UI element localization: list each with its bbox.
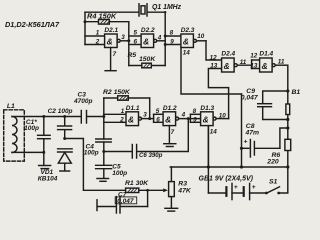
resistor R2 [103,89,150,119]
svg-text:8: 8 [193,108,197,115]
resistor R5 [128,52,166,68]
inductor L1 dashed shield box [4,110,25,161]
wire top rail to crystal [85,11,139,13]
wire crystal to D2.2 output node [148,12,166,65]
svg-text:2: 2 [119,116,124,123]
svg-text:D2.2: D2.2 [141,27,155,34]
svg-text:47m: 47m [245,130,260,137]
svg-text:7: 7 [113,51,117,58]
gate D2.4 [210,51,252,73]
svg-text:13: 13 [210,63,218,70]
svg-text:100p: 100p [24,125,39,132]
ground of L1/C1 [39,152,51,168]
svg-text:9: 9 [170,39,174,46]
capacitor C8 electrolytic [242,123,288,157]
wire node X down to C4 [103,122,105,139]
battery GB1 [199,125,266,200]
svg-text:1: 1 [121,108,125,115]
ground of R3 [165,208,178,211]
svg-text:R1 30K: R1 30K [125,180,149,187]
svg-text:D1.2: D1.2 [163,105,177,112]
svg-text:10: 10 [197,33,205,40]
svg-text:100p: 100p [84,150,99,157]
capacitor C2 [48,108,73,139]
svg-text:&: & [143,37,149,47]
gate D2.3 [165,27,206,48]
svg-text:47K: 47K [177,187,192,194]
svg-text:L1: L1 [7,103,15,110]
svg-text:3: 3 [121,34,125,41]
ground pin 7 of D1.2 [164,126,176,147]
svg-text:5: 5 [134,30,138,37]
svg-text:+: + [252,184,256,191]
switch S1 [265,167,288,194]
quartz crystal Q1 [139,4,182,16]
svg-text:R5: R5 [128,52,137,59]
svg-text:&: & [203,115,209,125]
svg-text:&: & [165,115,171,125]
wire D2.4 pin 13 from D1.3 output link [208,69,228,119]
svg-text:4700p: 4700p [73,98,92,105]
svg-text:4: 4 [157,35,162,42]
svg-text:100p: 100p [112,170,127,177]
svg-text:&: & [224,61,230,71]
svg-text:D1.1: D1.1 [126,105,140,112]
wire R4 right vertical [128,22,130,66]
svg-text:D2.4: D2.4 [221,51,235,58]
capacitor C7 [97,190,148,213]
svg-text:0,047: 0,047 [241,94,259,101]
svg-text:6: 6 [134,39,138,46]
svg-text:4: 4 [181,112,186,119]
wire rail C3 to node X [87,116,104,118]
gate D1.2 [154,105,201,126]
capacitor C1 [24,117,50,153]
wire C8 left vertical (supply) [241,94,243,167]
svg-text:GB1 9V (2X4,5V): GB1 9V (2X4,5V) [199,176,254,183]
svg-text:9: 9 [193,117,197,124]
ground pin 7 of D2.1 [105,48,117,71]
svg-text:&: & [183,37,189,47]
resistor R6 [266,139,290,165]
potentiometer R3 [169,167,192,208]
svg-text:2: 2 [95,39,100,46]
svg-text:&: & [107,37,113,47]
svg-text:D1.4: D1.4 [259,51,273,58]
svg-text:150K: 150K [139,56,156,63]
buzzer B1 [286,89,301,115]
varicap diode VD1 [38,149,72,183]
svg-text:C2 100p: C2 100p [48,108,73,115]
wire D1.4 output down right side [287,65,289,167]
capacitor C6 [104,119,189,160]
svg-text:R2 150K: R2 150K [103,89,131,96]
svg-text:14: 14 [210,129,218,136]
ground of C5 [97,179,109,182]
svg-text:1: 1 [96,30,100,37]
svg-text:12: 12 [250,53,258,60]
gate D1.1 [104,105,154,126]
wiper arrow into R3 [163,188,168,192]
svg-text:11: 11 [278,59,285,66]
pin 14 of D1.3 supply wire [208,126,217,167]
svg-text:10: 10 [219,113,227,120]
gate D1.4 [250,51,288,73]
pin 14 of D2.3 supply wire [181,48,242,95]
svg-text:8: 8 [170,30,174,37]
svg-text:0,047: 0,047 [117,198,134,205]
wire left vertical D2.1 input node [84,12,86,44]
gate D2.2 [129,27,165,48]
svg-text:R4 150K: R4 150K [87,12,117,21]
svg-text:КВ104: КВ104 [38,176,58,183]
gate D1.3 [190,105,228,126]
svg-text:D1.3: D1.3 [200,105,214,112]
svg-text:Q1 1MHz: Q1 1MHz [152,4,182,11]
wire tank top rail [44,116,81,118]
svg-text:D2.1: D2.1 [104,27,118,34]
svg-text:+: + [234,184,238,191]
svg-text:11: 11 [240,59,247,66]
svg-text:&: & [262,61,268,71]
inductor L1 coil [12,117,44,153]
resistor R4 [85,12,129,25]
svg-text:5: 5 [156,108,160,115]
svg-text:B1: B1 [292,89,301,96]
svg-text:220: 220 [266,159,279,166]
svg-text:C6 390p: C6 390p [139,152,163,159]
svg-text:13: 13 [250,63,258,70]
capacitor C3 [73,92,92,124]
svg-text:+: + [244,139,248,146]
capacitor C4 [84,139,111,165]
wire VD1 node to bias chain [65,139,126,191]
wire D2.3 out to D2.4 pin 12 [206,41,222,60]
svg-text:12: 12 [210,55,218,62]
svg-text:S1: S1 [269,178,278,185]
resistor R1 [125,180,163,193]
svg-text:&: & [128,115,134,125]
svg-text:14: 14 [183,50,191,57]
svg-text:7: 7 [171,129,175,136]
supply rail [170,166,287,168]
svg-text:D1,D2-К561ЛА7: D1,D2-К561ЛА7 [5,20,60,29]
svg-text:D2.3: D2.3 [181,27,195,34]
gate D2.1 [85,27,129,48]
svg-text:6: 6 [156,117,160,124]
capacitor C9 [241,88,288,120]
capacitor C5 [96,163,128,178]
svg-text:3: 3 [143,112,147,119]
